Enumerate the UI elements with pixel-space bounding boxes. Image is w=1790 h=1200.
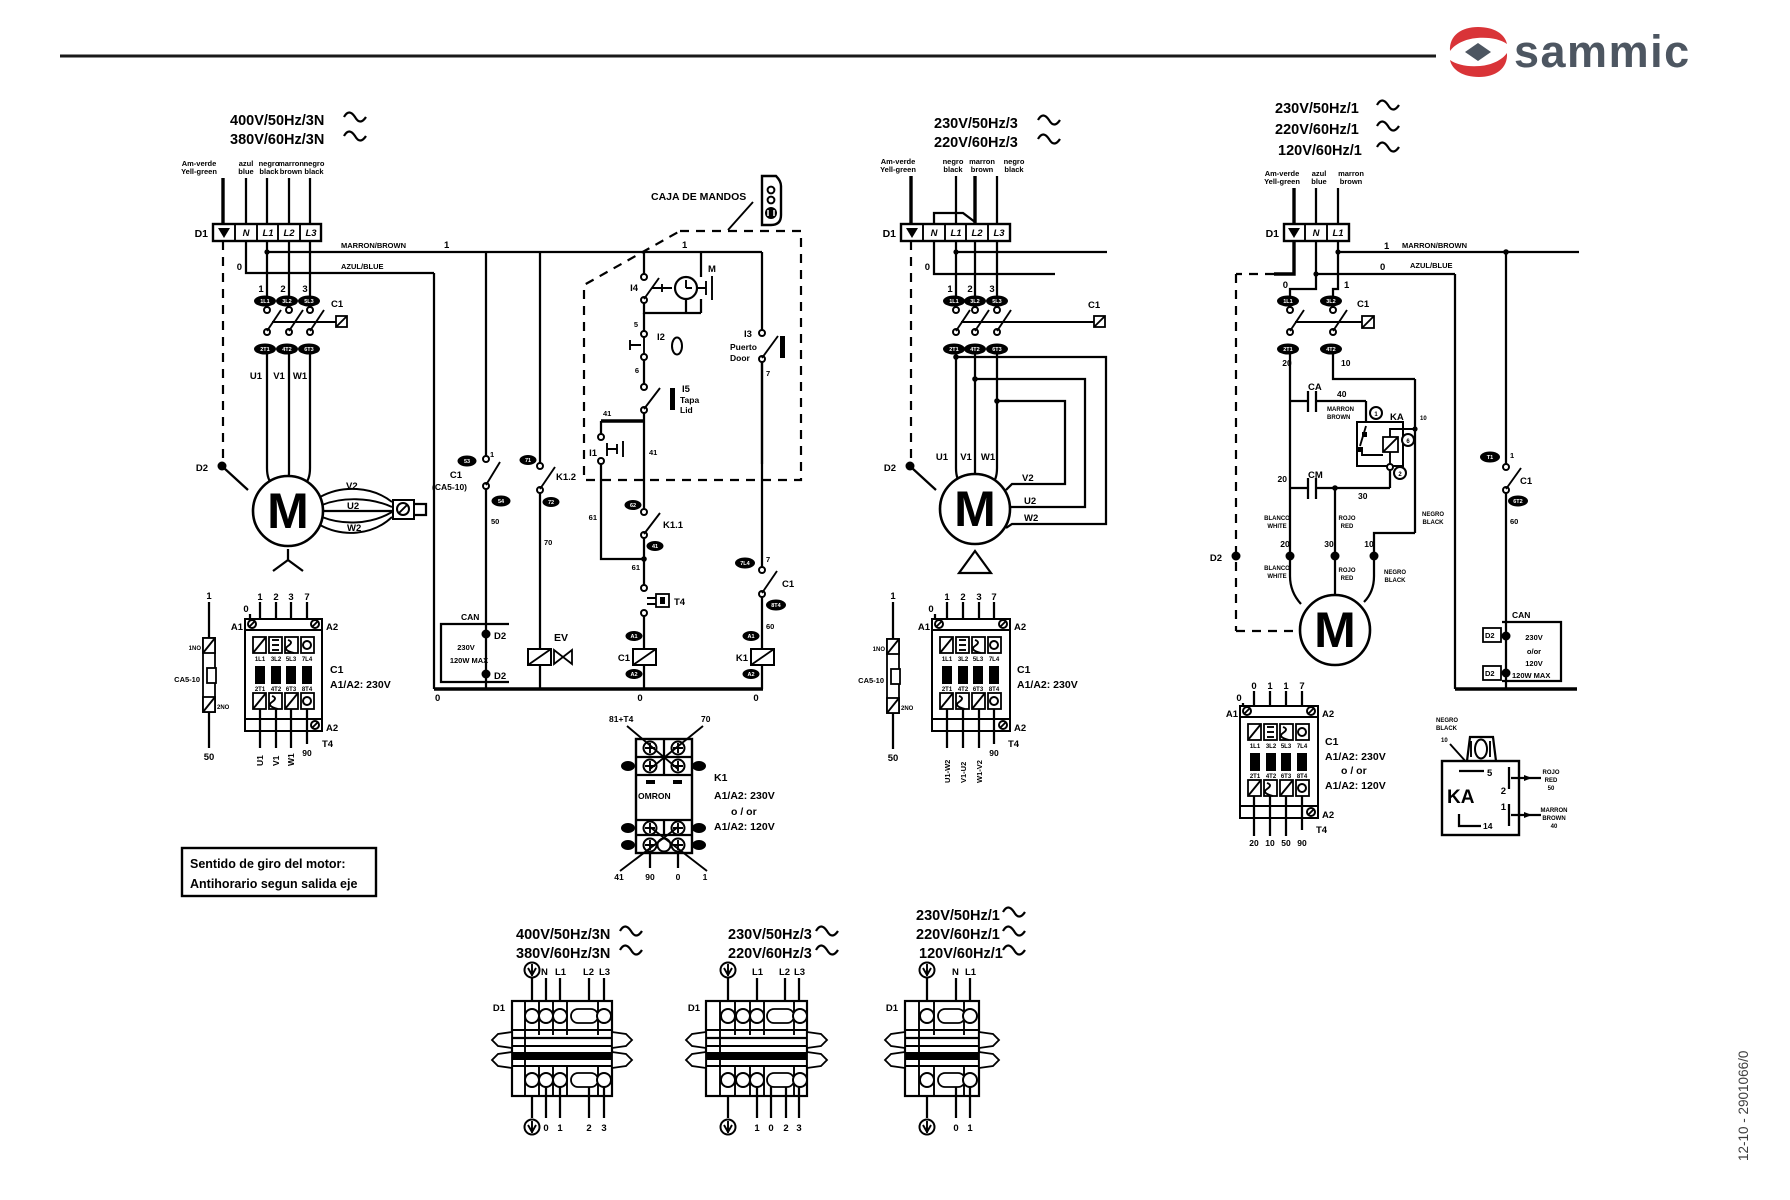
svg-text:L2: L2 [779, 967, 790, 978]
svg-text:NEGRO: NEGRO [1436, 718, 1458, 724]
C1 block bridges [255, 666, 265, 684]
svg-text:D1: D1 [688, 1003, 701, 1014]
svg-text:6: 6 [635, 366, 639, 375]
aux contact C1 (CA5-10) [458, 456, 477, 467]
wire L3 [309, 178, 311, 224]
wire N [245, 178, 247, 224]
C1 block bottom leads [946, 709, 948, 748]
junction to C1 switch column [1503, 249, 1509, 255]
earth stub to motor [224, 468, 248, 490]
footer [1736, 1051, 1751, 1161]
svg-text:C1: C1 [782, 579, 795, 590]
svg-text:1: 1 [444, 240, 450, 251]
svg-text:T4: T4 [1008, 739, 1020, 750]
svg-text:N: N [243, 228, 251, 239]
svg-text:61: 61 [632, 563, 640, 572]
svg-text:ROJO: ROJO [1542, 770, 1559, 776]
plug2 earth pin top [721, 963, 736, 978]
svg-text:380V/60Hz/3N: 380V/60Hz/3N [516, 946, 610, 962]
svg-text:BROWN: BROWN [1542, 816, 1565, 822]
svg-text:N: N [931, 228, 939, 239]
svg-text:3: 3 [796, 1123, 801, 1134]
plug2 earth pin bottom [721, 1120, 736, 1135]
svg-text:20: 20 [1278, 474, 1288, 484]
plug1 earth pin bottom [525, 1120, 540, 1135]
star point symbol [273, 549, 303, 571]
svg-text:81+T4: 81+T4 [609, 714, 634, 724]
svg-text:90: 90 [302, 748, 312, 758]
svg-text:400V/50Hz/3N: 400V/50Hz/3N [230, 113, 324, 129]
junction D2 [482, 630, 491, 639]
svg-text:62: 62 [630, 503, 636, 509]
svg-text:2: 2 [586, 1123, 591, 1134]
svg-text:ROJO: ROJO [1338, 568, 1355, 574]
leader line [728, 202, 753, 230]
svg-text:A1: A1 [1226, 709, 1239, 720]
svg-text:7: 7 [766, 555, 770, 564]
terminal oval 7L4 [735, 558, 755, 569]
svg-text:A1: A1 [231, 622, 244, 633]
C1 block body [932, 630, 1010, 719]
plug1 bottom leads [531, 1096, 533, 1118]
dashed enclosure caja de mandos [584, 231, 801, 480]
plug2 top leads [727, 978, 729, 1007]
negro jog to motor [1374, 533, 1415, 556]
earth dashed vertical [1235, 274, 1237, 631]
svg-text:1: 1 [967, 1123, 973, 1134]
C1 block body [245, 630, 322, 719]
svg-text:I3: I3 [744, 329, 752, 340]
svg-text:230V/50Hz/1: 230V/50Hz/1 [916, 908, 1000, 924]
contactor C1 actuator box [1094, 316, 1105, 327]
svg-text:1L1: 1L1 [949, 299, 958, 305]
svg-text:70: 70 [701, 714, 711, 724]
svg-text:D1: D1 [493, 1003, 506, 1014]
terminal oval 62 [625, 500, 642, 510]
svg-text:V1: V1 [271, 755, 281, 766]
svg-text:sammic: sammic [1514, 26, 1691, 77]
svg-text:W2: W2 [1024, 513, 1038, 524]
sammic logo diamond [1465, 43, 1491, 61]
svg-text:30: 30 [1358, 491, 1368, 501]
bottom bar [1240, 806, 1318, 818]
svg-text:black: black [1004, 165, 1024, 174]
svg-text:3: 3 [601, 1123, 606, 1134]
C1 block lower contacts [940, 693, 953, 709]
svg-text:7: 7 [766, 369, 770, 378]
wire black to L3 [996, 176, 998, 224]
contactor linkage line [961, 321, 1094, 323]
plug3 body [885, 1001, 999, 1096]
plug3 bottom leads [926, 1096, 928, 1118]
svg-text:L3: L3 [794, 967, 805, 978]
svg-text:N: N [952, 967, 959, 978]
svg-text:W1: W1 [286, 753, 296, 766]
wire L1 to contactor [1333, 252, 1338, 296]
brown rail 1 [1338, 251, 1579, 253]
earth dashed line below D1 [222, 241, 224, 461]
svg-text:0: 0 [953, 1123, 958, 1134]
svg-text:L2: L2 [583, 967, 594, 978]
svg-text:KA: KA [1447, 787, 1475, 808]
svg-text:C1: C1 [450, 470, 463, 481]
wire 20 down [1289, 354, 1291, 556]
earth dashed line below D1 [910, 241, 912, 461]
svg-text:U1: U1 [936, 452, 949, 463]
right vertical blue 0 [1454, 274, 1456, 689]
C1 block bridges [942, 666, 952, 684]
thermal contact T4 [641, 585, 647, 591]
contactor C1 terminal 4T2 [276, 344, 298, 355]
svg-text:50: 50 [1281, 838, 1291, 848]
svg-text:40: 40 [1551, 824, 1558, 830]
svg-text:50: 50 [204, 752, 215, 763]
wire drop to K1.2 [539, 252, 541, 463]
C1 block lower contacts [253, 693, 266, 709]
svg-text:C1: C1 [1088, 300, 1101, 311]
svg-text:3: 3 [302, 284, 307, 295]
motor lead W1 [304, 354, 310, 485]
terminal oval A2 [743, 669, 760, 679]
svg-text:1: 1 [1384, 241, 1390, 252]
svg-text:2: 2 [280, 284, 285, 295]
svg-text:0: 0 [676, 872, 681, 882]
svg-text:A1/A2: 230V: A1/A2: 230V [714, 790, 775, 802]
svg-text:brown: brown [1340, 177, 1363, 186]
svg-text:D2: D2 [1485, 669, 1495, 678]
svg-text:MARRON/BROWN: MARRON/BROWN [1402, 241, 1467, 250]
plug3 earth pin bottom [920, 1120, 935, 1135]
svg-text:D2: D2 [1210, 553, 1222, 564]
svg-text:A1/A2: 230V: A1/A2: 230V [1325, 751, 1386, 763]
bridges [1250, 753, 1260, 771]
bottom plugs [492, 908, 1025, 1135]
svg-text:W2: W2 [347, 523, 361, 534]
svg-text:1: 1 [1501, 802, 1507, 813]
svg-text:10: 10 [1265, 838, 1275, 848]
svg-text:A2: A2 [1322, 810, 1334, 821]
middle section 230V/3 [858, 116, 1107, 784]
svg-text:A1: A1 [747, 634, 754, 640]
svg-text:D2: D2 [1485, 631, 1495, 640]
motor M [1300, 595, 1370, 665]
svg-text:N: N [541, 967, 548, 978]
svg-text:black: black [943, 165, 963, 174]
aux contact C1 on K1 column [759, 567, 765, 573]
svg-text:OMRON: OMRON [638, 791, 671, 801]
svg-text:400V/50Hz/3N: 400V/50Hz/3N [516, 927, 610, 943]
svg-text:2NO: 2NO [901, 706, 914, 712]
plug1 body [492, 1001, 632, 1096]
svg-text:6T3: 6T3 [1281, 774, 1292, 780]
motor lead red [1334, 560, 1336, 594]
svg-text:A2: A2 [1014, 723, 1026, 734]
contactor C1 pole 3 [994, 307, 1000, 313]
contactor C1 actuator box [1362, 316, 1374, 328]
svg-text:BLACK: BLACK [1436, 726, 1458, 732]
svg-text:CAN: CAN [1512, 610, 1530, 620]
svg-text:0: 0 [753, 693, 758, 704]
contactor C1 terminal 5L3 [298, 296, 320, 307]
svg-text:A1: A1 [918, 622, 931, 633]
svg-text:4T2: 4T2 [282, 347, 291, 353]
earth jog to dashed line [1274, 241, 1294, 274]
note box sentido de giro [182, 848, 376, 896]
svg-text:7: 7 [304, 592, 309, 603]
junction brown/L1 [264, 249, 269, 254]
contactor C1 pole 1 [953, 307, 959, 313]
contactor C1 terminal 1L1 [943, 296, 965, 307]
AC squiggle [344, 113, 366, 122]
terminal oval A2 [626, 669, 643, 679]
svg-text:BLANCO: BLANCO [1264, 566, 1290, 572]
junction brown/L1 [953, 249, 958, 254]
svg-text:Door: Door [730, 353, 751, 363]
svg-text:A2: A2 [1014, 622, 1026, 633]
leader lines crossing top [627, 726, 678, 769]
svg-text:U1-W2: U1-W2 [943, 760, 952, 783]
svg-text:220V/60Hz/1: 220V/60Hz/1 [1275, 122, 1359, 138]
earth dashed to motor [1236, 630, 1299, 632]
svg-text:brown: brown [971, 165, 994, 174]
node D2 [218, 462, 227, 471]
svg-text:D2: D2 [196, 463, 208, 474]
svg-text:60: 60 [1510, 517, 1518, 526]
svg-text:U1: U1 [250, 371, 263, 382]
svg-text:A2: A2 [630, 672, 637, 678]
svg-text:D2: D2 [884, 463, 896, 474]
terminal oval A1 [743, 631, 760, 641]
svg-text:10: 10 [1441, 738, 1448, 744]
svg-text:brown: brown [280, 167, 303, 176]
svg-text:L3: L3 [993, 228, 1005, 239]
svg-text:72: 72 [548, 500, 554, 506]
svg-text:T1: T1 [1487, 455, 1493, 461]
svg-text:I5: I5 [682, 384, 691, 395]
C1 block bottom leads [259, 709, 261, 748]
earth wire [909, 176, 912, 224]
terminal strip D1 [195, 224, 321, 241]
svg-text:AZUL/BLUE: AZUL/BLUE [1410, 261, 1453, 270]
svg-text:4T2: 4T2 [1266, 774, 1277, 780]
bottom bus [1455, 687, 1577, 690]
svg-text:1: 1 [890, 591, 896, 602]
wire N down to blue rail [246, 241, 434, 273]
svg-text:3: 3 [288, 592, 293, 603]
svg-text:2: 2 [960, 592, 965, 603]
svg-text:AZUL/BLUE: AZUL/BLUE [341, 262, 384, 271]
svg-text:1: 1 [1344, 280, 1350, 291]
contactor C1 pole 1 [1287, 307, 1293, 313]
svg-text:50: 50 [888, 753, 899, 764]
svg-text:3L2: 3L2 [1326, 299, 1335, 305]
svg-text:4T2: 4T2 [271, 687, 282, 693]
wire L1 down [266, 241, 268, 296]
svg-text:6T3: 6T3 [992, 347, 1001, 353]
timer clock [675, 277, 697, 299]
svg-text:BROWN: BROWN [1327, 415, 1350, 421]
motor M [940, 474, 1010, 544]
brown rail wire 1 [267, 251, 762, 253]
svg-text:L1: L1 [262, 228, 273, 239]
contactor C1 terminal 3L2 [964, 296, 986, 307]
svg-text:1: 1 [703, 872, 708, 882]
svg-text:20: 20 [1280, 539, 1290, 549]
svg-text:8T4: 8T4 [989, 687, 1000, 693]
C1 block body [1240, 717, 1318, 806]
svg-text:2: 2 [967, 284, 972, 295]
pin 2 [1508, 767, 1510, 789]
blue rail 0 [1316, 241, 1455, 274]
svg-text:90: 90 [1297, 838, 1307, 848]
contactor C1 terminal 5L3 [986, 296, 1008, 307]
svg-text:4T2: 4T2 [1326, 347, 1335, 353]
svg-text:V1: V1 [273, 371, 285, 382]
AC squiggle [1038, 135, 1060, 144]
svg-text:I4: I4 [630, 283, 639, 294]
bottom leads [1253, 796, 1255, 836]
svg-text:1: 1 [1283, 681, 1289, 692]
motor lead V1 [288, 354, 289, 480]
valve symbol [554, 650, 572, 664]
aux contact CA5-10 body [203, 638, 215, 712]
svg-text:black: black [304, 167, 324, 176]
svg-text:7L4: 7L4 [989, 657, 1000, 663]
svg-text:V1: V1 [960, 452, 972, 463]
contactor C1 terminal 1L1 [254, 296, 276, 307]
svg-text:A1/A2: 120V: A1/A2: 120V [714, 821, 775, 833]
C1 block bottom bar [245, 719, 322, 731]
svg-text:90: 90 [645, 872, 655, 882]
leader [1450, 744, 1468, 764]
contactor C1 terminal 3L2 [276, 296, 298, 307]
junction D2 [1502, 669, 1511, 678]
svg-text:RED: RED [1341, 576, 1354, 582]
coil K1 [751, 649, 774, 665]
plug3 top leads [926, 978, 928, 1007]
svg-text:T4: T4 [322, 739, 334, 750]
wire N to contactor [1290, 274, 1316, 296]
KA relay plug [1467, 737, 1496, 761]
svg-text:M: M [267, 483, 309, 539]
svg-text:5L3: 5L3 [304, 299, 313, 305]
svg-text:2NO: 2NO [217, 705, 230, 711]
contactor C1 terminal 3L2 [1320, 296, 1342, 307]
svg-text:V2: V2 [1022, 473, 1034, 484]
svg-text:0: 0 [925, 262, 930, 273]
contactor C1 terminal 4T2 [1320, 344, 1342, 355]
svg-text:CAN: CAN [461, 612, 479, 622]
svg-text:70: 70 [544, 538, 552, 547]
svg-text:W1: W1 [293, 371, 308, 382]
sammic logo S icon bottom swoosh [1450, 53, 1507, 77]
svg-text:7L4: 7L4 [740, 561, 750, 567]
pushbutton I1 [598, 434, 604, 440]
svg-text:3: 3 [976, 592, 981, 603]
AC squiggle [1038, 116, 1060, 125]
blue 0-rail left edge [433, 273, 435, 689]
svg-text:8T4: 8T4 [302, 687, 313, 693]
svg-text:L1: L1 [555, 967, 567, 978]
svg-text:5L3: 5L3 [973, 657, 984, 663]
plug2 bottom leads [727, 1096, 729, 1118]
junction dot [641, 556, 647, 562]
wire L3 down [309, 241, 311, 296]
svg-text:0: 0 [1283, 280, 1288, 291]
svg-text:K1.1: K1.1 [663, 520, 684, 531]
svg-text:A1/A2: 230V: A1/A2: 230V [1017, 679, 1078, 691]
wire black to L1 [955, 176, 957, 224]
svg-text:2: 2 [783, 1123, 788, 1134]
svg-text:A2: A2 [1322, 709, 1334, 720]
svg-text:1L1: 1L1 [255, 657, 266, 663]
plug2 body [686, 1001, 827, 1096]
svg-text:U1: U1 [255, 755, 265, 766]
svg-text:D1: D1 [195, 228, 209, 240]
svg-text:Sentido de giro del motor:: Sentido de giro del motor: [190, 857, 346, 871]
svg-text:53: 53 [464, 459, 470, 465]
svg-text:380V/60Hz/3N: 380V/60Hz/3N [230, 132, 324, 148]
switch I5 tapa/lid [641, 384, 647, 390]
svg-text:C1: C1 [1017, 664, 1031, 676]
svg-text:120V: 120V [1525, 659, 1543, 668]
svg-text:0: 0 [543, 1123, 548, 1134]
terminal oval T1 [1480, 452, 1500, 463]
svg-text:1: 1 [1267, 681, 1273, 692]
control box section [432, 176, 801, 882]
lower contacts [1248, 780, 1261, 796]
svg-text:1: 1 [257, 592, 263, 603]
door switch I3 [761, 252, 763, 330]
contactor C1 terminal 4T2 [964, 344, 986, 355]
svg-text:5L3: 5L3 [1281, 744, 1292, 750]
contactor C1 terminal 2T1 [943, 344, 965, 355]
wire L1 [1337, 188, 1339, 224]
junction under I4 [644, 299, 701, 313]
svg-text:7L4: 7L4 [302, 657, 313, 663]
svg-text:120V/60Hz/1: 120V/60Hz/1 [1278, 143, 1362, 159]
wire I1 bypass [601, 464, 644, 559]
C1 block upper contacts [1248, 724, 1261, 740]
left section 400V/3N [174, 113, 762, 897]
svg-text:0: 0 [237, 262, 242, 273]
wire drop to timer M [700, 252, 702, 277]
svg-text:L1: L1 [1332, 228, 1343, 239]
C1 block upper contacts [940, 637, 953, 653]
svg-text:230V: 230V [457, 643, 475, 652]
svg-text:2T1: 2T1 [942, 687, 953, 693]
svg-text:L2: L2 [283, 228, 295, 239]
svg-text:CA5-10: CA5-10 [858, 676, 884, 685]
svg-text:0: 0 [243, 604, 248, 615]
plug1 earth pin top [525, 963, 540, 978]
svg-text:D2: D2 [494, 631, 506, 642]
contactor C1 terminal 6T3 [298, 344, 320, 355]
contactor C1 pole 2 [286, 307, 292, 313]
svg-text:10: 10 [1341, 358, 1351, 368]
svg-text:3L2: 3L2 [970, 299, 979, 305]
AC squiggle [1377, 101, 1399, 110]
AC squiggle [344, 132, 366, 141]
svg-text:(CA5-10): (CA5-10) [432, 482, 467, 492]
svg-text:A2: A2 [747, 672, 754, 678]
svg-text:T4: T4 [1316, 825, 1328, 836]
svg-text:K1.2: K1.2 [556, 472, 576, 483]
svg-text:10: 10 [1420, 416, 1427, 422]
svg-text:BLACK: BLACK [1423, 520, 1445, 526]
junction dot 30 [1331, 552, 1340, 561]
switch I4 [641, 274, 647, 280]
